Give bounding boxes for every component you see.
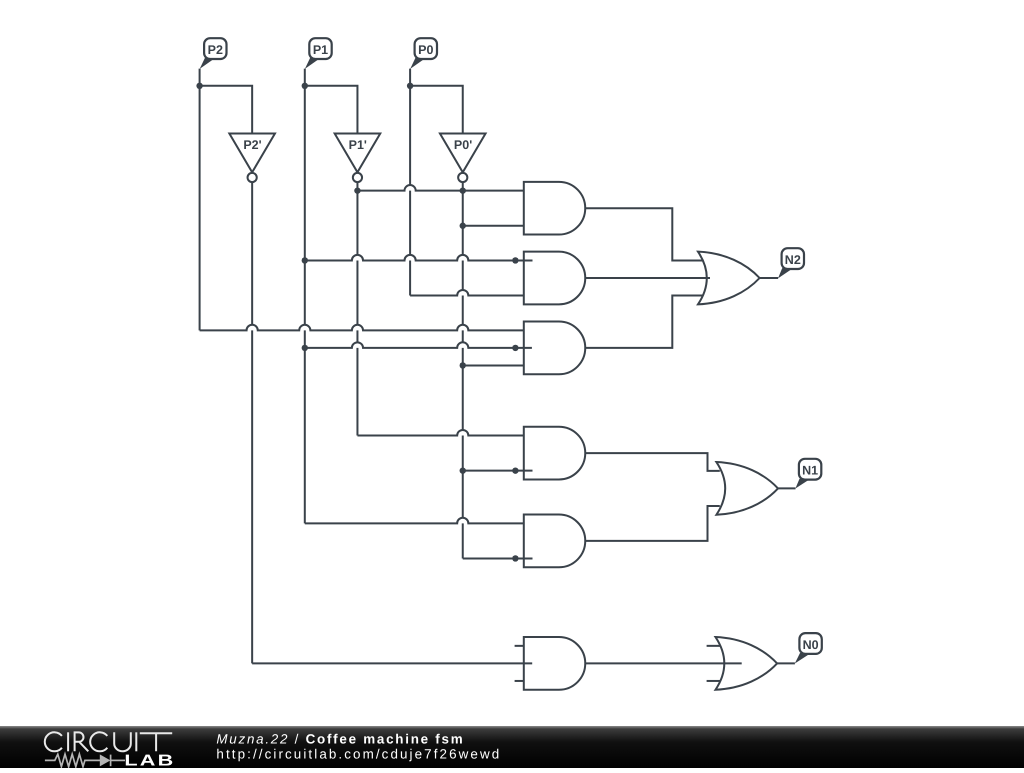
pin stub OR3 input B (unconnected)	[707, 680, 720, 682]
footer bar	[0, 726, 1024, 768]
logo CIRCUIT wordmark	[45, 732, 172, 751]
wire P1' vertical (inverter U2 output down to AND4)	[356, 182, 358, 435]
svg-text:P1': P1'	[349, 138, 367, 152]
input flag P2	[200, 38, 227, 69]
wire AND6 output to OR3 middle input	[585, 662, 741, 664]
output flag N0	[795, 633, 822, 663]
AND gate U6 AND3	[524, 322, 585, 375]
wire P1 flag to column (vertical net P1)	[304, 69, 306, 524]
node P0' to AND3	[460, 362, 466, 368]
node P1 to AND2	[302, 257, 308, 263]
logo diode triangle	[100, 754, 111, 766]
wire OR1 output to flag N2	[760, 277, 779, 279]
svg-text:P2': P2'	[243, 138, 261, 152]
node AND2 pin A junction	[512, 257, 518, 263]
node AND5 pin B junction	[512, 555, 518, 561]
wire AND3 output to OR1 bottom input	[585, 296, 702, 348]
wire P0' tap to AND3 bottom input	[463, 364, 524, 366]
node P0 branch	[407, 83, 413, 89]
svg-text:P0': P0'	[454, 138, 472, 152]
node P1 branch	[302, 83, 308, 89]
wire P2' vertical (inverter U1 output down to bottom row)	[251, 182, 253, 663]
wire P0' corner to AND5 bottom input	[463, 557, 533, 559]
inverter U3 (P0') bubble	[458, 173, 467, 182]
wire P0' tap to AND4 bottom input	[463, 470, 533, 472]
node P1'xP0' junction	[460, 187, 466, 193]
wire P2' corner to AND6 middle (bottom row)	[252, 662, 532, 664]
inverter U2 (P1') triangle	[335, 134, 381, 173]
output flag N2	[778, 248, 804, 278]
svg-text:http://circuitlab.com/cduje7f2: http://circuitlab.com/cduje7f26wewd	[216, 747, 501, 762]
input flag P0	[410, 38, 437, 69]
pin stub AND6 input B (unconnected)	[515, 680, 524, 682]
wire P0 flag to column (vertical net P0)	[409, 69, 411, 296]
wire P0' vertical (inverter U3 output down to AND5)	[462, 182, 464, 558]
wire AND5 output to OR2 bottom input	[585, 506, 720, 541]
wire P1 corner to AND5 top input	[305, 518, 524, 524]
svg-text:P2: P2	[208, 43, 223, 57]
wire P1 tap to AND3 middle input	[305, 342, 532, 348]
node P1 to AND3	[302, 345, 308, 351]
svg-text:N2: N2	[785, 253, 801, 267]
AND gate U8 AND5	[524, 515, 585, 568]
inverter U3 (P0') triangle	[440, 134, 486, 173]
svg-text:P1: P1	[313, 43, 328, 57]
AND gate U4 AND1	[524, 182, 585, 235]
wire P2 column corner to AND3 top input	[200, 325, 524, 331]
inverter U1 (P2') triangle	[229, 134, 275, 173]
pin stub AND6 input A (unconnected)	[515, 645, 524, 647]
node P0' to AND4	[460, 467, 466, 473]
pin stub OR3 input A (unconnected)	[707, 645, 720, 647]
wire branch P0 to inverter U3 input	[410, 86, 463, 134]
wire P1' corner to AND4 top input	[357, 430, 523, 436]
node AND4 pin B junction	[512, 467, 518, 473]
OR gate U11 OR2 (2-input, output N1)	[716, 462, 778, 515]
wire P0' tap to AND1 bottom input	[463, 225, 524, 227]
wire AND1 output to OR1 top input	[585, 208, 702, 260]
svg-text:Muzna.22 / Coffee machine fsm: Muzna.22 / Coffee machine fsm	[216, 732, 464, 747]
OR gate U10 OR1 (3-input, output N2)	[698, 252, 760, 305]
logo resistor-diode glyph	[45, 754, 125, 766]
wire AND4 output to OR2 top input	[585, 453, 720, 471]
wire AND2 output to OR1 middle input	[585, 277, 710, 279]
node P1' output junction	[354, 187, 360, 193]
wire OR3 output to flag N0	[777, 662, 795, 664]
wire branch P1 to inverter U2 input	[305, 86, 358, 134]
node P0' to AND1	[460, 223, 466, 229]
node AND3 mid pin junction	[512, 345, 518, 351]
wire branch P2 to inverter U1 input	[200, 86, 253, 134]
AND gate U5 AND2	[524, 252, 585, 305]
node P2 branch	[196, 83, 202, 89]
svg-text:LAB: LAB	[124, 753, 175, 769]
svg-text:N1: N1	[802, 464, 818, 478]
wire P1 tap to AND2 top input	[305, 255, 533, 261]
OR gate U12 OR3 (2-input, output N0)	[716, 637, 778, 690]
svg-text:N0: N0	[803, 638, 819, 652]
output flag N1	[795, 459, 821, 489]
wire P2 flag to column (vertical net P2)	[199, 69, 201, 331]
wire OR2 output to flag N1	[778, 487, 795, 489]
wire P1'&P0' row to AND1 top input	[357, 185, 523, 191]
AND gate U7 AND4	[524, 427, 585, 480]
inverter U2 (P1') bubble	[353, 173, 362, 182]
input flag P1	[305, 38, 332, 69]
wire P0 column corner to AND2 bottom input	[410, 290, 524, 296]
AND gate U9 AND6	[524, 637, 585, 690]
inverter U1 (P2') bubble	[248, 173, 257, 182]
svg-text:P0: P0	[418, 43, 433, 57]
